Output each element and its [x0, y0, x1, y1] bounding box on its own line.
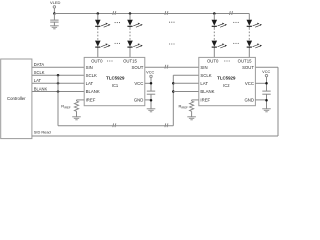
U1 pin dots top	[107, 60, 113, 61]
break squiggle rail right	[230, 11, 233, 15]
wire VCC2 vertical	[266, 77, 268, 109]
LED D1 string (IC1 OUT0) upper	[95, 20, 111, 27]
svg-text:Controller: Controller	[7, 96, 26, 101]
svg-text:VCC: VCC	[146, 71, 154, 75]
wire VCC1 vertical	[150, 78, 152, 109]
resistor R2 IREF	[190, 101, 194, 111]
capacitor C3 (VCC2 bypass)	[262, 91, 270, 94]
svg-text:LAT: LAT	[86, 81, 94, 86]
wire D3 string (IC2 OUT0)	[213, 14, 215, 58]
node GND2 junction	[265, 99, 268, 102]
svg-text:OUT0: OUT0	[91, 59, 103, 64]
wire R2 to ground	[191, 111, 193, 117]
node VLED rail junction	[53, 12, 56, 15]
svg-text:VCC: VCC	[134, 81, 143, 86]
U1 pin label SCLK	[86, 73, 97, 78]
svg-text:SIN: SIN	[86, 65, 93, 70]
svg-text:TLC5929: TLC5929	[106, 76, 125, 81]
U2 pin label IREF	[200, 98, 210, 103]
wire VLED cap stem	[53, 14, 55, 21]
svg-text:BLANK: BLANK	[86, 89, 100, 94]
svg-text:VCC: VCC	[262, 70, 270, 74]
wire D4 string (IC2 OUT15)	[248, 14, 250, 58]
node LAT tap IC2	[172, 82, 175, 85]
node BLANK bus tap	[57, 90, 60, 93]
ground R1	[72, 117, 81, 120]
U1 pin label BLANK	[86, 89, 100, 94]
wire VLED stem	[53, 8, 55, 13]
wire IREF IC2	[192, 100, 199, 101]
wire D2 string (IC1 OUT15)	[129, 14, 131, 58]
svg-text:SIN: SIN	[200, 65, 207, 70]
VCC1 terminal	[150, 75, 152, 77]
break squiggle rail left	[113, 11, 116, 15]
U2 pin label OUT0	[207, 59, 219, 64]
ground VCC1	[147, 109, 156, 112]
U2 pin label SIN	[200, 65, 207, 70]
svg-text:VLED: VLED	[50, 0, 61, 5]
resistor R1 IREF	[74, 101, 78, 111]
LAT label	[34, 78, 42, 83]
break squiggle SOUT wire	[165, 65, 168, 69]
node LAT bus tap	[57, 82, 60, 85]
wire BLANK stub IC2	[173, 91, 199, 93]
U1 pin label SIN	[86, 65, 93, 70]
svg-text:SOUT: SOUT	[131, 65, 143, 70]
IC U2 TLC5929 box	[199, 57, 256, 105]
wire VCC2 pin stub	[255, 82, 266, 84]
SCLK label	[34, 70, 45, 75]
break squiggle bus left	[113, 123, 116, 127]
LED D4 string (IC2 OUT15) lower	[247, 41, 263, 48]
svg-text:LAT: LAT	[200, 81, 208, 86]
svg-text:TLC5929: TLC5929	[217, 76, 236, 81]
ground C1	[50, 26, 59, 29]
wire VCC1 pin stub	[145, 82, 151, 84]
U1 pin label SOUT	[131, 65, 143, 70]
wire BLANK	[32, 91, 84, 93]
svg-text:BLANK: BLANK	[34, 86, 48, 91]
node VCC1 junction	[150, 82, 153, 85]
wire GND1 pin stub	[145, 99, 151, 101]
U2 pin dots top	[224, 60, 230, 61]
SID Read label	[34, 130, 51, 135]
node rail OUT0 IC1	[97, 12, 100, 15]
wire IREF IC1	[77, 100, 85, 101]
VCC2 label	[262, 70, 270, 74]
U1 pin label OUT15	[123, 59, 137, 64]
node rail OUT0 IC2	[213, 12, 216, 15]
U1 pin label VCC	[134, 81, 143, 86]
break squiggle bus right	[165, 123, 168, 127]
svg-text:SID Read: SID Read	[34, 130, 51, 135]
wire return right edge	[277, 67, 279, 136]
VLED label	[50, 0, 61, 5]
U1 pin label OUT0	[91, 59, 103, 64]
wire D1 string (IC1 OUT0)	[97, 14, 99, 58]
dots bank continuation row1	[169, 22, 175, 23]
U1 pin label GND	[134, 98, 144, 103]
U1 refdes IC1	[112, 83, 119, 88]
svg-text:OUT15: OUT15	[238, 59, 252, 64]
U2 pin label LAT	[200, 81, 208, 86]
svg-text:SCLK: SCLK	[86, 73, 97, 78]
wire C1 to ground	[53, 22, 55, 26]
dots LED column continuation IC1 row1	[115, 22, 121, 23]
U2 name TLC5929	[217, 76, 236, 81]
wire bus bottom run	[58, 125, 173, 127]
node VCC2 junction	[265, 82, 268, 85]
svg-text:SCLK: SCLK	[200, 73, 211, 78]
wire SOUT IC1 to SIN IC2	[145, 66, 199, 68]
wire SOUT IC2 right	[255, 66, 278, 68]
wire GND2 pin stub	[255, 99, 266, 101]
node rail OUT15 IC1	[129, 12, 132, 15]
wire LED supply rail	[54, 13, 249, 15]
svg-text:OUT0: OUT0	[207, 59, 219, 64]
ground R2	[187, 117, 196, 120]
IC U1 TLC5929 box	[84, 57, 145, 105]
svg-text:OUT15: OUT15	[123, 59, 137, 64]
ground VCC2	[262, 109, 271, 112]
svg-text:BLANK: BLANK	[200, 89, 214, 94]
wire DATA	[32, 66, 84, 68]
wire R1 to ground	[76, 111, 78, 117]
VCC2 terminal	[265, 74, 267, 76]
U2 pin label OUT15	[238, 59, 252, 64]
dots LED column continuation IC2 row2	[233, 43, 239, 44]
svg-text:IC1: IC1	[112, 83, 119, 88]
svg-text:IREF: IREF	[200, 98, 210, 103]
R1 label RIREF	[61, 104, 71, 110]
U2 pin label VCC	[245, 81, 254, 86]
svg-text:SOUT: SOUT	[242, 65, 254, 70]
LED D2 string (IC1 OUT15) lower	[127, 41, 143, 48]
node BLANK tap IC2	[172, 90, 175, 93]
wire SCLK stub IC2	[173, 74, 199, 76]
LED D4 string (IC2 OUT15) upper	[247, 20, 263, 27]
wire SID Read bottom	[32, 135, 278, 137]
R2 label RIREF	[179, 104, 189, 110]
svg-text:LAT: LAT	[34, 78, 42, 83]
U2 refdes IC2	[223, 83, 230, 88]
U2 pin label BLANK	[200, 89, 214, 94]
svg-text:GND: GND	[134, 98, 144, 103]
BLANK label	[34, 86, 48, 91]
capacitor C2 (VCC1 bypass)	[147, 91, 155, 94]
dots LED column continuation IC2 row1	[233, 22, 239, 23]
wire bus vertical left	[57, 75, 59, 126]
dots LED column continuation IC1 row2	[115, 43, 121, 44]
svg-text:SCLK: SCLK	[34, 70, 45, 75]
svg-text:IREF: IREF	[86, 98, 96, 103]
U1 pin label IREF	[86, 98, 96, 103]
VLED terminal	[53, 6, 55, 8]
node GND1 junction	[150, 99, 153, 102]
capacitor C1 (VLED bypass)	[50, 20, 58, 22]
svg-text:GND: GND	[244, 98, 254, 103]
controller label	[7, 96, 26, 101]
wire LAT stub IC2	[173, 82, 199, 84]
U1 pin label LAT	[86, 81, 94, 86]
svg-text:IC2: IC2	[223, 83, 230, 88]
controller box	[1, 59, 32, 139]
node SCLK bus tap	[57, 74, 60, 77]
svg-text:VCC: VCC	[245, 81, 254, 86]
U1 name TLC5929	[106, 76, 125, 81]
LED D3 string (IC2 OUT0) lower	[212, 41, 228, 48]
DATA label	[34, 62, 45, 67]
U2 pin label SOUT	[242, 65, 254, 70]
U2 pin label SCLK	[200, 73, 211, 78]
VCC1 label	[146, 71, 154, 75]
U2 pin label GND	[244, 98, 254, 103]
wire LAT	[32, 82, 84, 84]
LED D3 string (IC2 OUT0) upper	[212, 20, 228, 27]
wire bus vertical right	[172, 75, 174, 126]
LED D2 string (IC1 OUT15) upper	[127, 20, 143, 27]
break squiggle rail middle	[165, 11, 168, 15]
svg-text:DATA: DATA	[34, 62, 45, 67]
LED D1 string (IC1 OUT0) lower	[95, 41, 111, 48]
dots bank continuation row2	[169, 43, 175, 44]
wire SCLK	[32, 74, 84, 76]
